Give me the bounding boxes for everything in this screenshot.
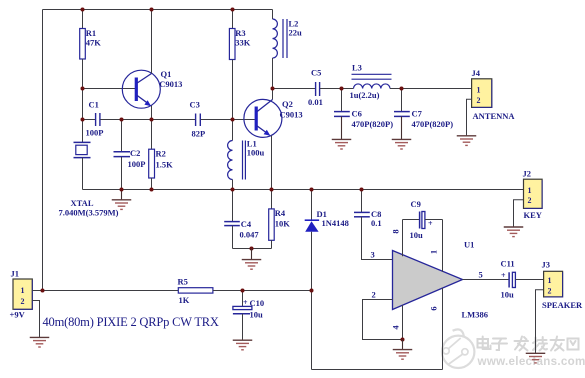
wire J3 pin2 (536, 290, 544, 353)
ground G1 bus (112, 200, 132, 210)
svg-text:6: 6 (428, 306, 438, 310)
svg-text:100u: 100u (247, 147, 265, 157)
svg-text:C9013: C9013 (280, 109, 303, 119)
svg-text:KEY: KEY (524, 210, 542, 220)
wire J4 pin2 (467, 99, 472, 135)
svg-text:0.01: 0.01 (308, 97, 323, 107)
ground G2 C4R4 (242, 260, 262, 270)
wire C5 to L3 (320, 88, 354, 90)
svg-text:2: 2 (21, 297, 25, 306)
wire J2 pin2 (514, 200, 524, 227)
svg-text:100P: 100P (86, 128, 104, 138)
wire C6 top (341, 89, 343, 112)
capacitor C11 (508, 272, 510, 287)
wire ground stub G2 (251, 249, 253, 260)
junction top R3 (231, 8, 235, 12)
junction C2 gnd (120, 188, 124, 192)
transistor Q2 emitter arrow (264, 130, 271, 136)
wire L3 to J4 (390, 88, 472, 90)
svg-text:C3: C3 (190, 100, 200, 110)
wire Q2 emitter (271, 136, 273, 190)
transistor Q2 emitter stroke (257, 126, 267, 134)
junction C6 top (340, 87, 344, 91)
svg-text:ANTENNA: ANTENNA (473, 111, 516, 121)
svg-text:10u: 10u (410, 230, 424, 240)
svg-text:C1: C1 (89, 100, 99, 110)
wire pin4 (402, 305, 404, 340)
svg-text:1.5K: 1.5K (156, 159, 174, 169)
ground G10 C10 (233, 340, 253, 350)
svg-text:1N4148: 1N4148 (322, 218, 349, 228)
svg-text:Q1: Q1 (161, 69, 172, 79)
wire XTAL bottom (82, 158, 84, 190)
svg-text:1: 1 (428, 250, 438, 254)
svg-text:2: 2 (528, 196, 532, 205)
svg-text:1K: 1K (179, 295, 190, 305)
wire Q2 collector (272, 89, 274, 100)
wire L2 top (272, 10, 274, 20)
junction top Q1 (150, 8, 154, 12)
wire C10 bottom (242, 314, 244, 340)
inductor L2 core (282, 19, 284, 58)
svg-text:+9V: +9V (10, 310, 26, 320)
wire pin2 loop (363, 300, 403, 340)
svg-text:+: + (428, 219, 433, 228)
connector J3 (544, 271, 563, 297)
crystal XTAL body (76, 145, 87, 154)
junction Q1 emitter (150, 118, 154, 122)
wire C2 top (121, 120, 123, 152)
junction C4R4 ground (250, 247, 254, 251)
svg-text:0.1: 0.1 (371, 218, 382, 228)
wire C6 bottom (341, 116, 343, 139)
wire R2 bottom (151, 178, 153, 190)
wire top rail (43, 9, 273, 11)
wire R4 top (271, 190, 273, 209)
svg-text:J2: J2 (523, 169, 532, 179)
capacitor C9 (419, 212, 421, 229)
svg-text:33K: 33K (235, 37, 251, 47)
svg-text:C9013: C9013 (159, 79, 182, 89)
wire J1 pin1 (32, 290, 42, 292)
svg-text:470P(820P): 470P(820P) (412, 119, 454, 129)
svg-text:XTAL: XTAL (71, 198, 94, 208)
junction C1 XTAL (81, 118, 85, 122)
capacitor C8 (354, 211, 370, 213)
capacitor C3 (195, 114, 197, 127)
svg-text:C4: C4 (241, 219, 252, 229)
resistor R4 (269, 209, 275, 240)
inductor L3 core (352, 73, 392, 75)
wire C8 to pin3 (362, 217, 393, 260)
wire C7 top (401, 89, 403, 112)
svg-text:100P: 100P (128, 159, 146, 169)
svg-text:10u: 10u (250, 309, 264, 319)
junction pin4 ground (401, 338, 405, 342)
svg-text:2: 2 (372, 290, 376, 300)
junction R4 top (270, 188, 274, 192)
junction R2 bottom (150, 188, 154, 192)
wire pin6 (442, 288, 444, 370)
junction D1 bus (310, 289, 314, 293)
ground G6 key (504, 227, 524, 237)
ground G7 +9V (30, 337, 50, 347)
svg-text:J4: J4 (472, 68, 481, 78)
wire R3 bottom (232, 60, 234, 141)
wire C3 to Q2 base (201, 119, 255, 121)
junction J1 pin1 (41, 289, 45, 293)
svg-text:0.047: 0.047 (240, 229, 260, 239)
resistor R3 (229, 29, 235, 60)
junction Q2 base R3 (231, 118, 235, 122)
resistor R5 (178, 288, 213, 293)
svg-text:C11: C11 (501, 259, 515, 269)
wire Q1 emitter (151, 106, 153, 120)
svg-text:2: 2 (548, 286, 552, 295)
svg-text:Q2: Q2 (282, 99, 293, 109)
wire C4 top (232, 190, 234, 222)
wire bottom rail (312, 369, 443, 371)
capacitor C4 (224, 221, 240, 223)
svg-text:2: 2 (477, 96, 481, 105)
wire output (463, 279, 509, 281)
junction Q1 base (81, 87, 85, 91)
ground G5 antenna (457, 136, 477, 146)
junction C8 top (360, 188, 364, 192)
wire R3 top (232, 10, 234, 29)
wire C1 to C3 (100, 119, 195, 121)
wire Q1 collector (151, 10, 153, 74)
diode D1 cathode bar (305, 219, 319, 221)
wire R1 bottom to XTAL (82, 59, 84, 142)
ground G8 opamp (393, 350, 413, 360)
transistor Q1 collector stroke (137, 74, 151, 84)
wire R5 to D1 column (213, 290, 312, 292)
wire C9 to pin1 (425, 219, 443, 221)
inductor L1 core (242, 141, 244, 180)
transistor Q2 collector stroke (257, 100, 272, 112)
crystal XTAL plates (74, 141, 91, 143)
svg-text:C9: C9 (411, 199, 421, 209)
svg-text:5: 5 (479, 269, 483, 279)
svg-text:22u: 22u (289, 27, 303, 37)
inductor L1 (228, 141, 233, 180)
svg-text:1: 1 (21, 286, 25, 295)
svg-text:C2: C2 (130, 148, 140, 158)
diode D1 triangle (305, 221, 318, 232)
svg-text:+: + (501, 271, 506, 280)
svg-text:R2: R2 (156, 149, 166, 159)
junction Q2 collector (271, 87, 275, 91)
svg-text:82P: 82P (192, 129, 206, 139)
wire left rail (42, 10, 44, 291)
wire C4-R4 join (233, 248, 272, 250)
svg-text:R5: R5 (178, 276, 188, 286)
wire J1 to R5 (43, 290, 179, 292)
transistor Q2 base bar (255, 107, 258, 131)
watermark text dianzifashaoyou (478, 337, 579, 351)
svg-text:1: 1 (548, 276, 552, 285)
wire L1 bottom (232, 180, 234, 190)
junction top R1 (81, 8, 85, 12)
connector J2 (524, 179, 543, 208)
wire R1 top (82, 10, 84, 29)
svg-text:SPEAKER: SPEAKER (542, 300, 583, 310)
capacitor C5 (315, 82, 317, 96)
svg-text:L3: L3 (352, 62, 362, 72)
svg-text:C5: C5 (311, 68, 321, 78)
transistor Q1 emitter stroke (137, 96, 148, 104)
svg-text:C6: C6 (352, 109, 362, 119)
svg-text:10u: 10u (501, 290, 515, 300)
transistor Q1 emitter arrow (144, 100, 151, 106)
wire C11 to J3 (515, 279, 543, 281)
capacitor C7 (394, 111, 410, 113)
capacitor C2 (114, 151, 131, 153)
wire D1 bottom (311, 232, 313, 370)
junction C7 top (400, 87, 404, 91)
transistor Q1 circle (122, 70, 160, 108)
svg-text:7.040M(3.579M): 7.040M(3.579M) (59, 208, 119, 218)
svg-text:U1: U1 (464, 240, 474, 250)
wire D1 top (311, 190, 313, 221)
svg-text:470P(820P): 470P(820P) (352, 119, 394, 129)
transistor Q2 circle (244, 99, 282, 137)
wire C8 top (361, 190, 363, 213)
svg-text:1: 1 (477, 85, 481, 94)
wire J1 pin2 (32, 301, 39, 338)
ground G4 C7 (392, 139, 412, 149)
junction C10 top (241, 289, 245, 293)
inductor L3 (354, 84, 390, 89)
wire ground bus (83, 189, 524, 191)
wire R4 bottom (271, 240, 273, 248)
wire L2 bottom (272, 58, 274, 89)
wire ground stub G1 (121, 190, 123, 200)
resistor R1 (80, 29, 86, 60)
junction D1 top (310, 188, 314, 192)
svg-text:3: 3 (371, 250, 375, 260)
svg-text:LM386: LM386 (462, 309, 488, 319)
svg-text:40m(80m) PIXIE 2 QRPp CW TRX: 40m(80m) PIXIE 2 QRPp CW TRX (43, 315, 219, 329)
wire ground stub G8 (402, 340, 404, 350)
wire pin8 (402, 220, 404, 257)
wire pin1 (442, 220, 444, 272)
wire C2 bottom (121, 157, 123, 190)
op-amp U1 (393, 251, 463, 310)
wire C4 bottom (232, 226, 234, 249)
svg-text:1u(2.2u): 1u(2.2u) (350, 90, 380, 100)
svg-text:8: 8 (390, 229, 400, 233)
capacitor C1 (95, 113, 97, 126)
connector J1 (13, 279, 32, 309)
capacitor C10 (233, 306, 252, 309)
capacitor C6 (334, 111, 350, 113)
junction L1 bottom (231, 188, 235, 192)
svg-text:10K: 10K (275, 219, 291, 229)
ground G3 C6 (332, 139, 352, 149)
junction C2 top (120, 118, 124, 122)
wire C1 left (83, 119, 96, 121)
wire C10 top (242, 291, 244, 307)
svg-text:47K: 47K (86, 37, 102, 47)
transistor Q1 base bar (135, 78, 138, 102)
wire pin8 to C9 (403, 219, 420, 221)
resistor R2 (149, 149, 155, 178)
svg-text:R4: R4 (275, 208, 286, 218)
wire Q1 emitter to R2 (151, 120, 153, 150)
svg-text:C10: C10 (250, 298, 265, 308)
inductor L2 (273, 19, 278, 58)
ground G9 speaker (526, 353, 546, 363)
svg-text:+: + (243, 298, 248, 307)
wire collector to C5 (273, 88, 316, 90)
svg-text:J1: J1 (11, 268, 20, 278)
wire C7 bottom (401, 116, 403, 139)
wire Q1 base (83, 88, 136, 90)
svg-text:1: 1 (528, 186, 532, 195)
watermark logo (442, 329, 474, 368)
connector J4 (472, 79, 492, 108)
svg-text:C7: C7 (412, 109, 423, 119)
svg-text:J3: J3 (542, 260, 551, 270)
